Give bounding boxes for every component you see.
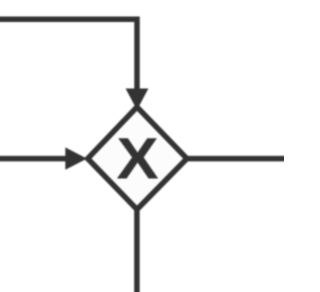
wire: top-left elbow connector into gateway — [0, 19, 137, 89]
wire: right outgoing connector — [187, 156, 295, 162]
svg-text:X: X — [116, 126, 159, 191]
arrowhead: incoming from left — [65, 147, 87, 169]
arrowhead: incoming from top — [126, 89, 149, 111]
gateway G1: exclusive (XOR) gateway diamond — [88, 107, 187, 209]
wire: left horizontal connector into gateway — [0, 156, 67, 162]
wire: bottom outgoing connector — [134, 209, 140, 292]
